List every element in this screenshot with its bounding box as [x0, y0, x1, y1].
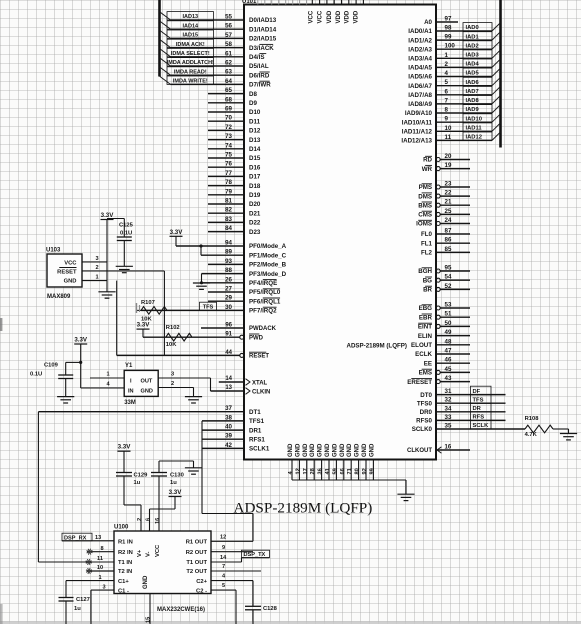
U103 pin 2 wire (RESET out)	[82, 265, 164, 271]
pin 98 IAD0/A1	[408, 23, 500, 36]
svg-text:FL2: FL2	[421, 250, 433, 257]
pin 74 D14 (wire, number, label)	[208, 142, 261, 153]
svg-text:DR: DR	[473, 406, 482, 412]
bus IAD0-IAD12 (top-right vertical bus)	[499, 0, 502, 148]
svg-text:Y1: Y1	[125, 363, 133, 369]
pin 34 DR0	[420, 403, 506, 416]
svg-text:30: 30	[225, 304, 232, 311]
svg-text:VCC: VCC	[309, 10, 315, 23]
pin 32 TFS0	[417, 395, 506, 408]
svg-text:D7/IWR: D7/IWR	[249, 82, 271, 89]
svg-text:11: 11	[97, 556, 103, 562]
U100 pin 14 (T1OUT) / DSP_TX	[211, 550, 270, 562]
resistor R108 4.7K	[506, 416, 569, 438]
pin 73 D13 (wire, number, label)	[208, 133, 261, 144]
svg-text:A0: A0	[424, 19, 432, 26]
pin 69 D10 (wire, number, label)	[208, 106, 261, 117]
svg-text:70: 70	[225, 115, 232, 122]
svg-text:75: 75	[225, 152, 232, 159]
pin 7 IAD8/A9	[408, 96, 500, 109]
svg-text:GND: GND	[288, 443, 294, 457]
svg-text:85: 85	[445, 246, 452, 253]
svg-text:56: 56	[225, 23, 232, 30]
pin 1 IAD3/A4	[408, 50, 500, 63]
svg-text:28: 28	[310, 468, 316, 474]
svg-text:IAD6: IAD6	[466, 80, 480, 86]
svg-text:IAD11/A12: IAD11/A12	[402, 129, 433, 136]
U100 pin 11 (T1IN)	[86, 556, 103, 565]
svg-text:IMDA WRITE!: IMDA WRITE!	[173, 79, 208, 85]
wire PF0-PF1 junction	[199, 244, 202, 255]
U100 pin 12 (R1OUT)	[211, 534, 253, 541]
oscillator Y1 33M	[124, 363, 158, 406]
svg-text:41: 41	[325, 468, 331, 474]
pin 75 D15 (wire, number, label)	[208, 152, 261, 163]
svg-text:PF1/Mode_C: PF1/Mode_C	[249, 252, 287, 259]
net label TFS (on PF7/IRQ2 wire)	[200, 302, 217, 310]
svg-text:80: 80	[355, 468, 361, 474]
svg-text:D22: D22	[249, 220, 261, 227]
U100 pin 1 (C1+) wire to C127	[66, 575, 114, 598]
svg-text:12: 12	[295, 468, 301, 474]
svg-text:PF3/Mode_D: PF3/Mode_D	[249, 271, 287, 278]
svg-text:4: 4	[445, 70, 449, 77]
svg-text:PF0/Mode_A: PF0/Mode_A	[249, 243, 287, 250]
svg-text:IAD6/A7: IAD6/A7	[408, 83, 432, 90]
svg-text:52: 52	[445, 283, 452, 290]
capacitor C129 1u	[116, 472, 148, 505]
power 3.3V (R102)	[137, 322, 151, 338]
pin 39 RFS1	[202, 433, 265, 444]
svg-text:13: 13	[95, 535, 101, 541]
svg-text:3: 3	[102, 584, 105, 590]
pin 22 DMS	[418, 190, 470, 201]
svg-text:89: 89	[225, 249, 232, 256]
svg-text:D9: D9	[249, 100, 257, 107]
pin 61 D4/IS (wire, number, label)	[160, 48, 267, 61]
pin 91 PWD (inverting)	[143, 332, 264, 342]
svg-text:IAD8/A9: IAD8/A9	[408, 101, 432, 108]
svg-text:CLKOUT: CLKOUT	[407, 448, 432, 454]
svg-text:D8: D8	[249, 91, 257, 98]
svg-text:8: 8	[445, 107, 449, 114]
svg-text:T1 IN: T1 IN	[118, 560, 132, 566]
svg-text:3: 3	[171, 372, 174, 378]
svg-text:IAD7: IAD7	[466, 89, 479, 95]
svg-text:IAD1/A2: IAD1/A2	[408, 37, 432, 44]
pin 30 PF7/IRQ2	[141, 304, 277, 315]
svg-text:10: 10	[445, 125, 452, 132]
pin 20 RD	[423, 153, 470, 164]
pin 6 IAD7/A8	[408, 86, 500, 99]
ground (PF3/PF4)	[193, 283, 210, 289]
svg-text:D13: D13	[249, 137, 261, 144]
svg-text:MAX232CWE(16): MAX232CWE(16)	[157, 607, 205, 613]
pin 11 IAD12/A13	[401, 132, 500, 145]
pin 72 D12 (wire, number, label)	[208, 124, 261, 135]
svg-text:D6/IRD: D6/IRD	[249, 72, 270, 79]
svg-text:IMDA READ!: IMDA READ!	[174, 69, 207, 75]
power 3.3V (PF0/PF1 pullup)	[170, 229, 184, 246]
DSP U101 ADSP-2189M body	[242, 0, 436, 460]
svg-text:99: 99	[369, 468, 375, 474]
svg-text:IDMA SELECT!: IDMA SELECT!	[171, 51, 210, 57]
ground (C130)	[185, 461, 202, 474]
U100 pin 7 (T2OUT)	[211, 564, 261, 571]
svg-text:RESET: RESET	[57, 269, 77, 275]
svg-text:VCC: VCC	[317, 10, 323, 23]
svg-text:14: 14	[225, 376, 232, 382]
svg-text:1u: 1u	[74, 606, 81, 612]
svg-text:37: 37	[225, 405, 232, 412]
svg-text:T1 OUT: T1 OUT	[186, 560, 207, 566]
svg-text:IAD7/A8: IAD7/A8	[408, 92, 432, 99]
svg-text:79: 79	[225, 188, 232, 195]
svg-text:74: 74	[225, 142, 232, 149]
svg-text:1: 1	[95, 275, 98, 281]
power 3.3V (C129)	[118, 444, 132, 473]
GND pins (bottom of DSP)	[288, 443, 406, 494]
svg-text:SCLK1: SCLK1	[249, 446, 270, 453]
svg-text:100: 100	[445, 43, 456, 50]
svg-text:19: 19	[445, 162, 452, 169]
svg-text:7: 7	[445, 97, 449, 104]
svg-text:64: 64	[225, 78, 232, 85]
pin 24 IOMS	[416, 217, 470, 228]
svg-text:DR1: DR1	[249, 427, 262, 434]
svg-text:95: 95	[445, 265, 452, 272]
svg-text:94: 94	[225, 240, 232, 247]
svg-text:IAD2: IAD2	[466, 43, 479, 49]
svg-text:ELIN: ELIN	[418, 333, 433, 340]
svg-text:98: 98	[445, 25, 452, 32]
svg-text:D4/IS: D4/IS	[249, 54, 264, 61]
pin 4 IAD5/A6	[408, 68, 500, 81]
svg-text:1u: 1u	[170, 480, 177, 486]
power 3.3V (Y1)	[74, 337, 88, 389]
pin 85 FL2	[421, 246, 470, 257]
svg-text:5: 5	[445, 79, 449, 86]
svg-text:63: 63	[225, 69, 232, 76]
svg-text:58: 58	[225, 41, 232, 48]
svg-text:32: 32	[445, 397, 452, 404]
pin 55 D0/IAD13 (wire, number, label)	[160, 12, 277, 25]
title ADSP-2189M (LQFP)	[234, 500, 373, 517]
svg-text:DSP_TX: DSP_TX	[244, 552, 266, 558]
svg-text:84: 84	[225, 225, 232, 232]
svg-text:3.3V: 3.3V	[169, 489, 183, 496]
svg-text:RESET: RESET	[249, 354, 269, 360]
pin 81 D20 (wire, number, label)	[208, 198, 261, 209]
power 3.3V (U100 VCC)	[146, 489, 183, 531]
svg-text:82: 82	[225, 207, 232, 214]
svg-text:13: 13	[225, 385, 232, 391]
pin 31 DT0	[420, 386, 505, 399]
svg-text:3.3V: 3.3V	[74, 337, 88, 344]
svg-text:GND: GND	[355, 443, 361, 457]
svg-text:2: 2	[445, 61, 449, 68]
pin 26 PF4/IRQE	[202, 276, 278, 287]
svg-text:D12: D12	[249, 128, 261, 135]
svg-text:IAD9: IAD9	[466, 107, 480, 113]
svg-text:24: 24	[445, 217, 452, 224]
pin 44 RESET (inverting)	[117, 350, 270, 360]
svg-text:10K: 10K	[166, 342, 177, 348]
svg-text:EBR: EBR	[419, 314, 433, 321]
ground (R108)	[560, 434, 577, 440]
svg-text:VCC: VCC	[64, 260, 77, 266]
svg-text:33M: 33M	[124, 400, 136, 406]
svg-text:96: 96	[225, 323, 232, 329]
svg-text:C2+: C2+	[196, 579, 207, 585]
svg-text:IAD15: IAD15	[183, 33, 199, 39]
pin 8 IAD9/A10	[405, 105, 501, 118]
capacitor C130 1u	[151, 461, 194, 531]
svg-text:47: 47	[445, 348, 452, 355]
svg-text:FL1: FL1	[421, 240, 433, 247]
svg-text:IAD0: IAD0	[466, 25, 479, 31]
ground (U103)	[98, 292, 115, 298]
svg-text:IAD4: IAD4	[466, 62, 480, 68]
svg-text:IN: IN	[128, 388, 134, 394]
pin 16 CLKOUT	[407, 445, 470, 455]
svg-text:IAD12/A13: IAD12/A13	[401, 138, 432, 145]
pin 35 SCLK0	[412, 421, 506, 434]
svg-text:BG: BG	[423, 277, 432, 284]
svg-text:14: 14	[220, 555, 227, 561]
wire SCLK to ground	[568, 429, 570, 434]
pin 9 IAD10/A11	[402, 114, 501, 127]
svg-text:88: 88	[225, 267, 232, 274]
pin 53 EBG	[419, 302, 470, 313]
svg-text:GND: GND	[332, 443, 338, 457]
svg-text:EINT: EINT	[418, 324, 432, 331]
svg-text:GND: GND	[362, 443, 368, 457]
svg-text:D2/IAD15: D2/IAD15	[249, 36, 277, 43]
pin 63 D6/IRD (wire, number, label)	[160, 67, 270, 80]
pin 45 EMS	[419, 366, 470, 377]
pin 37 DT1	[38, 405, 261, 416]
svg-text:50: 50	[445, 320, 452, 327]
ground (C109)	[57, 397, 74, 403]
svg-text:59: 59	[332, 468, 338, 474]
capacitor C125 0.1U	[117, 219, 134, 267]
svg-text:RFS1: RFS1	[249, 436, 265, 443]
svg-text:81: 81	[225, 198, 232, 205]
resistor R107 10K	[136, 300, 167, 322]
svg-text:6: 6	[445, 88, 449, 95]
svg-text:D16: D16	[249, 164, 261, 171]
svg-text:0.1U: 0.1U	[120, 231, 132, 237]
svg-text:ELOUT: ELOUT	[411, 342, 432, 349]
pin 46 EE	[424, 357, 470, 368]
svg-text:71: 71	[347, 468, 353, 474]
svg-text:GND: GND	[141, 388, 153, 394]
svg-text:PF4/IRQE: PF4/IRQE	[249, 280, 277, 287]
svg-text:GND: GND	[310, 443, 316, 457]
svg-text:2: 2	[137, 518, 143, 521]
svg-text:43: 43	[445, 375, 452, 382]
U103 pin 3 wire (VCC)	[82, 256, 107, 262]
svg-text:IAD5: IAD5	[466, 71, 480, 77]
svg-text:3.3V: 3.3V	[137, 322, 151, 329]
svg-text:ECLK: ECLK	[415, 351, 432, 358]
svg-text:GND: GND	[369, 443, 375, 457]
svg-text:1: 1	[106, 372, 109, 378]
pin 89 PF1/Mode_C	[201, 249, 287, 260]
svg-text:IAD9/A10: IAD9/A10	[405, 110, 433, 117]
svg-text:46: 46	[445, 357, 452, 364]
bus IAD13-IWR (top-left vertical bus)	[158, 0, 161, 77]
wire V+ pin2	[124, 505, 143, 531]
capacitor C127 1u	[59, 597, 90, 624]
svg-text:D20: D20	[249, 201, 261, 208]
svg-text:BGH: BGH	[418, 268, 432, 275]
ground (C125)	[116, 266, 133, 272]
svg-text:83: 83	[225, 216, 232, 223]
svg-text:IAD3/A4: IAD3/A4	[408, 56, 432, 63]
svg-text:16: 16	[445, 445, 452, 451]
svg-text:11: 11	[445, 134, 452, 141]
svg-text:9: 9	[222, 545, 225, 551]
svg-text:2: 2	[171, 381, 174, 387]
ground (GND bus)	[397, 494, 414, 500]
svg-text:FL0: FL0	[421, 231, 433, 238]
svg-text:EBG: EBG	[419, 305, 433, 312]
pin 54 BG	[423, 274, 470, 285]
pin 86 FL1	[421, 237, 470, 248]
svg-text:IAD0/A1: IAD0/A1	[408, 28, 432, 35]
svg-text:GND: GND	[325, 443, 331, 457]
Y1 pin3 wire (OUT to CLKIN)	[158, 372, 244, 392]
pin 99 IAD1/A2	[408, 32, 500, 45]
svg-text:1: 1	[98, 575, 101, 581]
svg-text:R1 IN: R1 IN	[118, 540, 133, 546]
capacitor C109 0.1U	[30, 362, 81, 396]
svg-text:49: 49	[445, 329, 452, 336]
pin 58 D3/IACK (wire, number, label)	[160, 39, 275, 52]
pin 57 D2/IAD15 (wire, number, label)	[160, 30, 277, 43]
svg-text:9: 9	[445, 116, 449, 123]
svg-text:U100: U100	[114, 525, 129, 531]
svg-text:57: 57	[225, 32, 232, 39]
pin 56 D1/IAD14 (wire, number, label)	[160, 21, 277, 34]
svg-text:XTAL: XTAL	[252, 380, 268, 386]
svg-text:PF5/IRQL0: PF5/IRQL0	[249, 289, 281, 296]
svg-text:RFS0: RFS0	[416, 418, 432, 425]
svg-text:BR: BR	[423, 287, 432, 294]
svg-text:87: 87	[445, 228, 452, 235]
svg-text:T2 OUT: T2 OUT	[186, 569, 207, 575]
svg-text:92: 92	[362, 468, 368, 474]
svg-text:0.1U: 0.1U	[30, 371, 42, 377]
svg-text:GND: GND	[318, 443, 324, 457]
svg-text:D5/IAL: D5/IAL	[249, 63, 269, 70]
svg-text:R2 IN: R2 IN	[118, 550, 133, 556]
svg-text:31: 31	[445, 388, 452, 395]
svg-text:8: 8	[100, 546, 103, 552]
svg-text:33: 33	[445, 414, 452, 421]
svg-text:D11: D11	[249, 118, 261, 125]
svg-text:GND: GND	[64, 278, 77, 284]
svg-text:ERESET: ERESET	[407, 379, 432, 386]
pin 93 PF2/Mode_B	[208, 258, 287, 269]
svg-text:29: 29	[225, 295, 232, 302]
U100 pin 10 stub	[86, 565, 114, 574]
svg-text:TFS1: TFS1	[249, 418, 265, 425]
svg-text:RFS: RFS	[473, 415, 485, 421]
svg-text:DT0: DT0	[420, 392, 432, 399]
svg-text:66: 66	[340, 468, 346, 474]
power 3.3V (U103)	[101, 212, 125, 292]
svg-text:6: 6	[146, 518, 152, 521]
svg-text:RD: RD	[423, 157, 432, 164]
pin 43 ERESET	[407, 375, 470, 386]
U100 pin 5 (C2-) wire	[211, 583, 236, 624]
svg-text:36: 36	[318, 468, 324, 474]
svg-text:93: 93	[225, 258, 232, 265]
svg-text:DR0: DR0	[420, 409, 433, 416]
svg-text:VDD: VDD	[345, 10, 351, 23]
svg-text:VDD: VDD	[336, 10, 342, 23]
U100 pin 8 stub	[86, 546, 114, 555]
svg-text:IAD10/A11: IAD10/A11	[402, 119, 433, 126]
svg-text:C1 -: C1 -	[118, 588, 129, 594]
svg-text:10: 10	[97, 565, 103, 571]
pin 23 PMS	[419, 181, 470, 192]
svg-text:20: 20	[445, 153, 452, 160]
svg-text:R102: R102	[166, 325, 180, 331]
svg-text:55: 55	[225, 14, 232, 21]
U100 pin 4 (C2+) wire to C128	[211, 574, 253, 607]
pin 52 BR	[423, 283, 470, 294]
label ADSP-2189M (LQFP) inside chip	[346, 343, 407, 350]
svg-text:ADSP-2189M (LQFP): ADSP-2189M (LQFP)	[346, 343, 407, 350]
pin 29 PF6/IRQL1	[208, 295, 281, 306]
svg-text:TFS: TFS	[203, 305, 214, 311]
pin 82 D21 (wire, number, label)	[208, 207, 261, 218]
pin 78 D18 (wire, number, label)	[208, 179, 261, 190]
pin 51 EBR	[419, 311, 470, 322]
pin 70 D11 (wire, number, label)	[208, 115, 261, 126]
wire PF3-PF4 to ground	[200, 274, 203, 285]
svg-text:IAD13: IAD13	[183, 14, 199, 20]
svg-text:3.3V: 3.3V	[118, 444, 132, 451]
pin 94 PF0/Mode_A	[176, 240, 287, 251]
svg-text:VDD: VDD	[327, 10, 333, 23]
svg-text:99: 99	[445, 34, 452, 41]
svg-text:68: 68	[225, 96, 232, 103]
pin 50 EINT	[418, 320, 470, 331]
svg-text:IAD12: IAD12	[466, 135, 482, 141]
svg-text:R108: R108	[525, 416, 540, 422]
svg-text:EE: EE	[424, 360, 432, 367]
svg-text:IAD5/A6: IAD5/A6	[408, 74, 432, 81]
capacitor C128	[245, 606, 278, 624]
svg-text:IOMS: IOMS	[416, 221, 432, 228]
svg-text:3.3V: 3.3V	[170, 229, 184, 236]
svg-text:27: 27	[225, 286, 232, 293]
svg-text:SCLK0: SCLK0	[412, 426, 433, 433]
svg-text:OUT: OUT	[141, 378, 153, 384]
svg-text:2: 2	[95, 265, 98, 271]
svg-text:TFS0: TFS0	[417, 400, 433, 407]
svg-text:5: 5	[222, 583, 225, 589]
wire SPORT1 bundle down	[202, 421, 253, 541]
wire (vertical from U103 area to RESET row)	[116, 281, 118, 356]
pin 25 CMS	[418, 208, 470, 219]
svg-text:C128: C128	[263, 606, 278, 612]
